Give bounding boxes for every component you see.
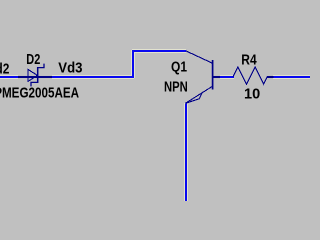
svg-text:R4: R4 (241, 51, 257, 68)
svg-text:Vd3: Vd3 (58, 59, 82, 76)
svg-text:Vd2: Vd2 (0, 60, 9, 77)
svg-text:10: 10 (244, 86, 260, 102)
svg-text:PMEG2005AEA: PMEG2005AEA (0, 84, 79, 101)
svg-text:NPN: NPN (164, 78, 188, 95)
svg-text:Q1: Q1 (171, 58, 187, 75)
svg-text:D2: D2 (26, 50, 40, 67)
